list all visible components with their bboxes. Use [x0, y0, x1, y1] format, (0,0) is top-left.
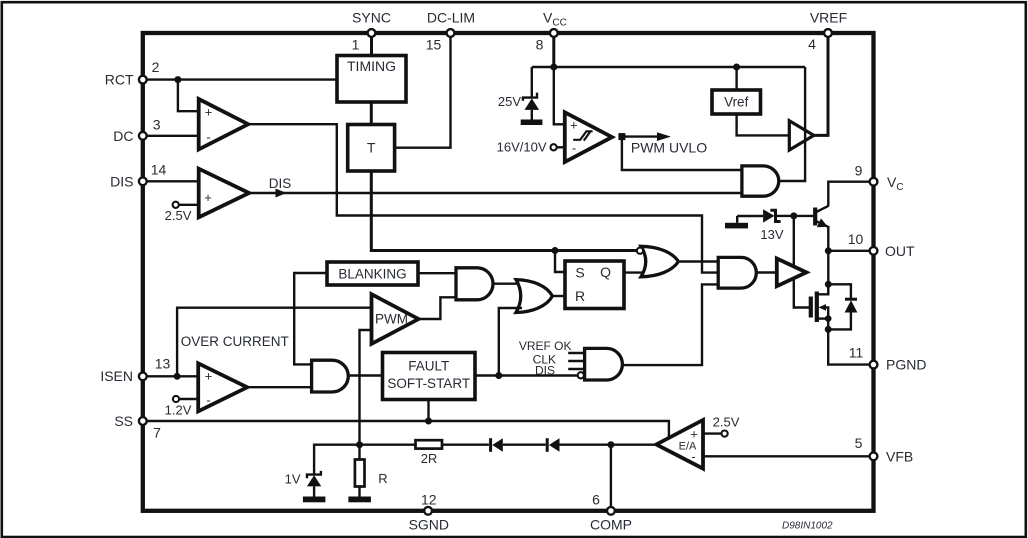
svg-text:+: +	[570, 117, 578, 132]
amplifier E/A	[656, 420, 703, 469]
wire TIMING to T	[370, 102, 373, 125]
wire SYNC to TIMING	[370, 37, 373, 56]
svg-text:SGND: SGND	[409, 517, 449, 533]
wire NOR to output AND	[679, 260, 719, 262]
wire VFB to EA minus	[703, 455, 869, 457]
pin 10 OUT	[828, 231, 915, 259]
wire DC-LIM to T block	[395, 37, 451, 148]
node 1.2V reference	[165, 396, 199, 417]
resistor 2R	[416, 440, 443, 466]
wire FAULT output	[475, 374, 578, 376]
svg-text:RCT: RCT	[105, 71, 134, 87]
wire Q output	[624, 271, 648, 273]
pin 5 VFB	[855, 435, 914, 464]
wire Vref to buffer	[737, 114, 790, 135]
svg-text:S: S	[575, 265, 584, 281]
svg-text:DIS: DIS	[535, 363, 555, 377]
gate AND over current	[312, 360, 349, 392]
wire AND3 output to output AND	[622, 284, 718, 365]
pin 4 VREF	[808, 9, 847, 52]
svg-text:COMP: COMP	[590, 517, 632, 533]
svg-text:25V: 25V	[498, 94, 521, 109]
flip-flop FF1 SR	[565, 261, 624, 309]
svg-text:13V: 13V	[760, 227, 783, 242]
block Vref	[712, 67, 761, 114]
comparator U1 oscillator	[199, 99, 249, 149]
resistor R	[355, 445, 388, 497]
wire buffer to VREF pin	[814, 37, 828, 135]
wire EA output line	[611, 444, 656, 446]
block FAULT SOFT-START	[383, 353, 476, 400]
wire ISEN to comparator	[147, 375, 198, 377]
wire RCT to osc comparator	[178, 80, 199, 112]
pin 7 SS	[114, 413, 161, 441]
comparator U5 over current	[198, 363, 247, 411]
svg-text:3: 3	[153, 117, 161, 133]
wire T clock output	[371, 171, 637, 251]
gate NOR output latch	[637, 246, 679, 276]
svg-text:R: R	[378, 471, 387, 486]
block BLANKING	[327, 262, 418, 285]
junction Vref supply node	[733, 64, 740, 71]
svg-text:+: +	[690, 426, 698, 441]
buffer Vref output	[789, 121, 814, 150]
block TIMING	[337, 56, 406, 103]
svg-text:VC: VC	[887, 174, 904, 193]
comparator U4 PWM	[372, 294, 419, 344]
svg-text:6: 6	[592, 492, 600, 508]
wire emitter to OUT node	[827, 226, 829, 294]
svg-text:1.2V: 1.2V	[165, 402, 192, 417]
wire DIS rail	[249, 192, 742, 194]
gate AND blanking	[456, 268, 493, 300]
junction clock-S node	[552, 247, 559, 254]
wire FAULT to soft-start line	[427, 400, 429, 421]
diode D6 body	[828, 284, 857, 329]
ground 13V zener	[725, 216, 763, 228]
svg-text:DC-LIM: DC-LIM	[427, 9, 475, 25]
wire OC comparator to AND	[247, 386, 311, 388]
zener D1 25V	[498, 67, 539, 120]
svg-text:VREF OK: VREF OK	[519, 339, 572, 353]
pin 8 VCC	[536, 9, 567, 52]
svg-text:-: -	[206, 130, 210, 145]
svg-text:Q: Q	[600, 264, 611, 280]
junction OUT node	[825, 247, 832, 254]
svg-text:SS: SS	[114, 413, 133, 429]
svg-text:1V: 1V	[285, 471, 301, 486]
svg-text:-: -	[206, 393, 210, 408]
pin 1 SYNC	[352, 9, 391, 52]
svg-text:2.5V: 2.5V	[165, 208, 192, 223]
svg-text:15: 15	[426, 37, 442, 53]
ground 1V zener	[303, 497, 326, 503]
wire ISEN to PWM comparator	[177, 308, 371, 377]
svg-text:PWM: PWM	[375, 311, 408, 326]
svg-text:14: 14	[151, 162, 167, 178]
svg-text:VCC: VCC	[543, 9, 567, 28]
mosfet Q2	[811, 284, 832, 322]
node 2.5V reference DIS	[165, 202, 199, 223]
svg-text:DIS: DIS	[269, 176, 292, 191]
svg-text:2.5V: 2.5V	[713, 415, 740, 430]
svg-text:DC: DC	[113, 128, 133, 144]
svg-text:OUT: OUT	[885, 243, 915, 259]
wire PWM output	[419, 297, 457, 319]
wire VC to transistor	[828, 182, 869, 207]
svg-text:BLANKING: BLANKING	[338, 266, 406, 281]
svg-text:PGND: PGND	[886, 357, 926, 373]
svg-text:+: +	[205, 368, 213, 383]
svg-text:D98IN1002: D98IN1002	[782, 521, 833, 532]
wire blank AND to OR	[493, 283, 522, 285]
wire driver gate line	[794, 216, 810, 308]
arrow PWM UVLO	[622, 132, 707, 155]
wire UVLO AND output to rail	[779, 67, 805, 181]
svg-text:12: 12	[421, 492, 437, 508]
zener D4 1V	[285, 471, 322, 497]
junction ISEN node	[174, 373, 181, 380]
junction COMP node	[607, 441, 614, 448]
wire 2R to zener branch	[314, 445, 415, 475]
wire VCC to UVLO comparator	[554, 67, 565, 124]
svg-text:+: +	[204, 190, 212, 205]
junction source node	[825, 326, 832, 333]
wire PWM minus input	[360, 330, 372, 445]
wire VCC rail	[532, 37, 805, 67]
svg-text:1: 1	[352, 37, 360, 53]
svg-text:T: T	[367, 140, 376, 156]
pin 3 DC	[113, 117, 161, 144]
pin 14 DIS	[110, 162, 166, 190]
svg-text:R: R	[575, 288, 585, 304]
svg-text:ISEN: ISEN	[100, 368, 133, 384]
IC body outline	[143, 33, 874, 511]
svg-text:FAULT: FAULT	[408, 359, 449, 374]
wire output AND to driver	[756, 271, 777, 273]
svg-text:10: 10	[848, 231, 864, 247]
transistor Q1 NPN	[815, 206, 828, 227]
junction VCC node	[550, 64, 557, 71]
junction drain node	[825, 281, 832, 288]
wire RCT to TIMING	[147, 78, 337, 80]
svg-text:11: 11	[849, 345, 864, 361]
svg-text:SOFT-START: SOFT-START	[387, 376, 470, 391]
gate AND3 restart	[519, 339, 623, 380]
comparator U3 PWM-UVLO	[565, 112, 612, 162]
junction R divider node	[356, 441, 363, 448]
svg-text:-: -	[572, 140, 576, 155]
svg-text:-: -	[691, 449, 695, 464]
svg-text:9: 9	[855, 163, 863, 179]
junction PWM UVLO node	[618, 133, 625, 140]
svg-text:2: 2	[152, 59, 160, 75]
wire osc output to mid AND	[248, 124, 718, 272]
wire soft-start rail	[147, 421, 669, 439]
pin 13 ISEN	[100, 356, 170, 384]
svg-text:7: 7	[153, 425, 161, 441]
svg-text:OVER CURRENT: OVER CURRENT	[181, 334, 289, 349]
pin 2 RCT	[105, 59, 160, 87]
pin 15 DC-LIM	[426, 9, 475, 52]
diode D2	[547, 438, 611, 452]
svg-text:Vref: Vref	[724, 95, 749, 110]
svg-text:4: 4	[808, 36, 816, 52]
pin 12 SGND	[409, 492, 449, 533]
junction 13V gate node	[790, 212, 797, 219]
pin 11 PGND	[828, 319, 926, 373]
junction fault node	[495, 372, 502, 379]
wire OC AND to FAULT	[348, 374, 382, 376]
node 16V-10V threshold	[497, 140, 565, 155]
wire fault branch to OR	[499, 308, 522, 376]
wire OR to R input	[552, 295, 565, 297]
wire clock to S input	[555, 251, 565, 273]
svg-text:+: +	[205, 104, 213, 119]
wire DC to osc comparator	[147, 135, 198, 137]
gate AND output stage	[718, 257, 756, 288]
node 2.5V reference EA	[703, 415, 740, 437]
gate OR reset	[516, 280, 552, 313]
diode D3	[442, 438, 546, 452]
block T	[348, 125, 395, 172]
zener D5 13V	[760, 209, 813, 242]
svg-text:VREF: VREF	[810, 9, 847, 25]
svg-text:PWM UVLO: PWM UVLO	[631, 139, 707, 155]
gate AND UVLO	[742, 166, 779, 196]
wire BLANKING left to OC AND	[294, 273, 327, 364]
comparator U2 DIS	[199, 169, 249, 218]
svg-text:TIMING: TIMING	[347, 58, 396, 74]
buffer output driver	[777, 259, 807, 287]
svg-text:16V/10V: 16V/10V	[497, 140, 547, 155]
pin 9 VC	[855, 163, 904, 194]
junction soft-start node	[425, 418, 432, 425]
ground 25V zener	[521, 120, 543, 126]
wire BLANKING to blank AND	[418, 272, 456, 274]
svg-text:DIS: DIS	[110, 174, 133, 190]
ground resistor R	[348, 497, 371, 503]
svg-text:5: 5	[855, 435, 863, 451]
svg-text:VFB: VFB	[886, 448, 913, 464]
wire DIS pin to comparator	[147, 180, 198, 182]
svg-text:13: 13	[155, 356, 171, 372]
svg-text:2R: 2R	[421, 451, 438, 466]
svg-text:SYNC: SYNC	[352, 9, 391, 25]
arrow DIS	[276, 189, 287, 198]
pin 6 COMP	[590, 445, 632, 533]
svg-text:8: 8	[536, 37, 544, 53]
wire UVLO comp to AND gate	[622, 137, 742, 170]
junction RCT node	[174, 76, 181, 83]
